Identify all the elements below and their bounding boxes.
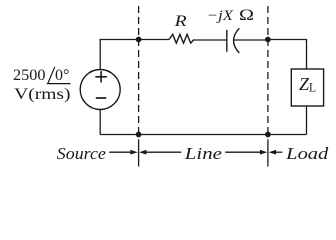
wire capacitor to node B bbox=[235, 39, 268, 41]
wire source bottom vertical bbox=[99, 110, 101, 135]
capacitor right curved plate bbox=[234, 28, 240, 53]
arrow boundary to load (left) bbox=[269, 150, 283, 155]
load box ZL bbox=[291, 69, 323, 106]
wire resistor to capacitor bbox=[194, 39, 227, 41]
arrow source to boundary bbox=[109, 150, 137, 155]
arrow boundary to line (left) bbox=[139, 150, 181, 155]
svg-text:0°: 0° bbox=[55, 67, 69, 84]
wire top: source to node A bbox=[100, 39, 139, 41]
wire load bottom vertical bbox=[306, 106, 308, 135]
wire bottom bbox=[100, 134, 306, 136]
svg-text:Source: Source bbox=[57, 144, 107, 163]
value label 2500&#8736;0&#176; V(rms) bbox=[13, 67, 71, 103]
resistor R bbox=[169, 34, 194, 43]
boundary dashed line source/line bbox=[138, 6, 140, 167]
svg-text:Load: Load bbox=[285, 144, 329, 163]
capacitor left plate bbox=[226, 30, 228, 52]
wire node A to resistor bbox=[139, 39, 169, 41]
svg-text:−jX: −jX bbox=[207, 8, 234, 24]
voltage source Vs bbox=[80, 70, 120, 110]
svg-text:R: R bbox=[173, 13, 186, 30]
wire source top vertical bbox=[99, 40, 101, 70]
svg-text:ZL: ZL bbox=[299, 74, 316, 95]
node C dot bbox=[136, 132, 142, 138]
node B dot bbox=[265, 37, 271, 43]
arrow line to boundary bbox=[225, 150, 267, 155]
svg-text:Ω: Ω bbox=[239, 7, 254, 24]
boundary dashed line line/load bbox=[267, 6, 269, 167]
node A dot bbox=[136, 37, 142, 43]
svg-text:V(rms): V(rms) bbox=[14, 86, 70, 103]
wire node B to load top bbox=[268, 40, 307, 70]
node D dot bbox=[265, 132, 271, 138]
svg-text:Line: Line bbox=[184, 144, 223, 163]
label -jX ohm bbox=[207, 7, 254, 24]
svg-text:2500: 2500 bbox=[13, 67, 46, 84]
